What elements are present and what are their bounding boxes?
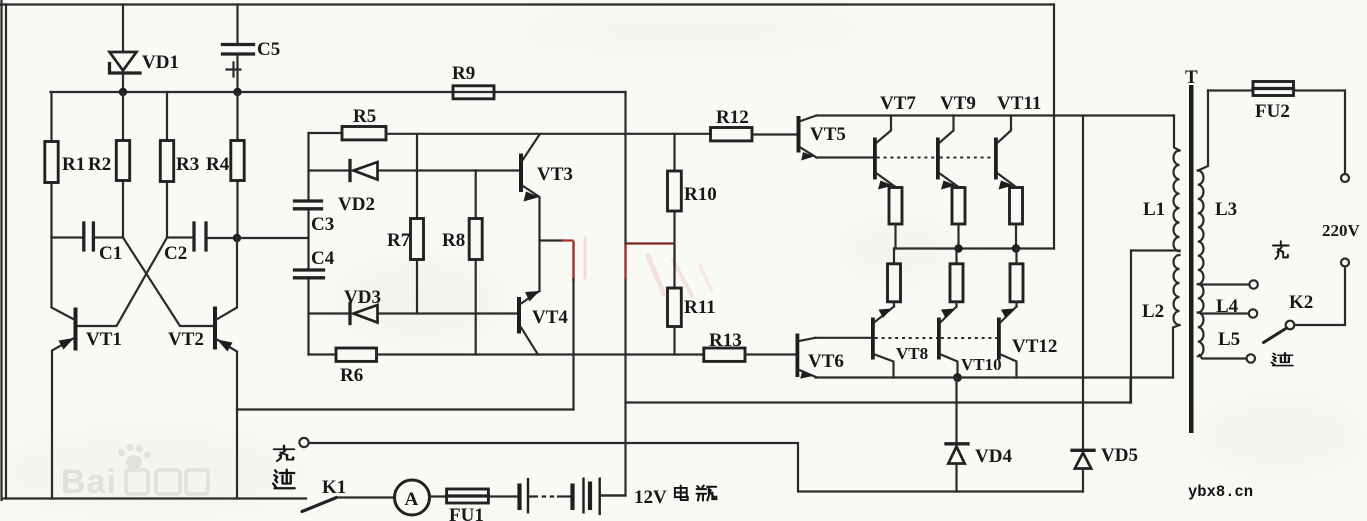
svg-text:FU2: FU2 <box>1255 101 1290 122</box>
transistor VT1 <box>52 238 78 499</box>
node junction VD1/bus <box>119 88 127 96</box>
wire return column x=573.5 <box>572 279 574 410</box>
wire L4/L5 tap <box>1201 312 1249 314</box>
label charge (right) <box>1273 241 1289 259</box>
svg-text:K2: K2 <box>1289 292 1313 313</box>
svg-text:R13: R13 <box>709 330 742 351</box>
capacitor C4 <box>295 270 324 278</box>
svg-text:L3: L3 <box>1215 199 1237 220</box>
wire base rail VT6 to VT8 <box>816 337 872 339</box>
svg-text:VD4: VD4 <box>975 446 1012 467</box>
wire line-B battery positive to centre tap <box>626 401 1131 403</box>
wire red segment vertical x=674.5 <box>673 245 675 267</box>
wire middle block left column <box>307 133 309 355</box>
resistor R6 <box>309 348 704 361</box>
transistor VT5 <box>797 116 817 161</box>
capacitor C2 <box>167 223 237 250</box>
winding L2 <box>1173 255 1180 378</box>
svg-text:VD5: VD5 <box>1101 445 1138 466</box>
winding L1 <box>1174 116 1180 252</box>
svg-text:VT11: VT11 <box>997 93 1041 114</box>
svg-text:R6: R6 <box>340 365 363 386</box>
capacitor C3 <box>295 201 322 209</box>
wire top supply rail <box>0 3 1054 5</box>
svg-text:L1: L1 <box>1143 199 1165 220</box>
winding L4 <box>1198 284 1204 312</box>
wire red tap to R10/R11 node <box>626 242 675 244</box>
wire battery positive column x=625.5 <box>601 92 626 496</box>
svg-text:C3: C3 <box>311 214 334 235</box>
svg-text:T: T <box>1185 67 1198 88</box>
resistor R13 <box>704 348 796 361</box>
wire L3 top to FU2 <box>1208 89 1253 91</box>
terminal L3/L4 tap <box>1249 280 1257 288</box>
wire L5 bottom <box>1200 355 1247 359</box>
resistor VT8 emitter <box>888 249 901 307</box>
svg-text:R3: R3 <box>176 154 199 175</box>
resistor R5 <box>309 127 711 140</box>
svg-text:VT5: VT5 <box>810 124 846 145</box>
svg-text:220V: 220V <box>1322 221 1361 240</box>
diode VD3 <box>309 304 518 324</box>
node junction rail/VT11 column <box>1012 244 1020 252</box>
svg-text:VD3: VD3 <box>344 287 381 308</box>
resistor VT12 emitter <box>1010 249 1023 307</box>
resistor VT10 emitter <box>950 249 963 307</box>
wire collector rail y=377.5 to L2 <box>816 376 1174 378</box>
wire collector rail y=115.5 <box>817 114 1175 116</box>
svg-text:VT1: VT1 <box>86 329 122 350</box>
wire bracket rail to line-B x=1130.5 <box>1129 378 1131 403</box>
label charge (left) <box>274 446 294 462</box>
winding L3 <box>1198 91 1208 285</box>
wire 220V lower to K2 <box>1295 267 1346 326</box>
wire bottom-left ground rail <box>2 497 306 499</box>
wire positive bus y=92 <box>51 91 626 93</box>
svg-text:R7: R7 <box>387 230 411 251</box>
svg-text:VT8: VT8 <box>896 344 928 363</box>
terminal 220V lower <box>1341 259 1349 267</box>
terminal L4/L5 tap <box>1249 309 1257 317</box>
svg-text:C1: C1 <box>99 243 122 264</box>
diode VD1 <box>110 5 141 93</box>
wire dashed base link VT7-VT9 <box>877 157 936 159</box>
svg-text:R5: R5 <box>353 106 376 127</box>
resistor R3 <box>160 92 173 238</box>
terminal L5 bottom (inverter) <box>1247 354 1255 362</box>
fuse FU2 <box>1253 82 1294 96</box>
wire primary centre tap <box>1131 249 1180 251</box>
transistor VT7 <box>873 116 896 190</box>
wire FU2 to 220V terminal <box>1294 91 1346 175</box>
resistor R10 <box>668 134 682 288</box>
svg-text:VD1: VD1 <box>142 52 179 73</box>
wire red segment vertical x=625.5 <box>624 245 626 279</box>
meter A <box>395 480 430 515</box>
diode VD5 <box>1072 118 1094 492</box>
transistor VT4 <box>517 291 540 355</box>
node junction VT10 collector/rail <box>953 373 962 382</box>
svg-text:K1: K1 <box>322 477 346 498</box>
svg-text:R9: R9 <box>452 63 475 84</box>
winding L5 <box>1198 313 1204 357</box>
switch K2 pivot <box>1286 321 1295 330</box>
svg-text:VT7: VT7 <box>880 93 916 114</box>
svg-text:R8: R8 <box>442 230 465 251</box>
svg-text:L5: L5 <box>1218 329 1240 350</box>
label battery char dian <box>675 485 688 500</box>
svg-text:VD2: VD2 <box>338 194 375 215</box>
svg-text:ybx8.cn: ybx8.cn <box>1188 483 1253 501</box>
transistor VT12 <box>997 307 1017 378</box>
label battery char ping <box>697 486 717 501</box>
svg-text:VT6: VT6 <box>808 351 844 372</box>
svg-text:VT9: VT9 <box>940 93 976 114</box>
svg-text:VT10: VT10 <box>961 355 1002 374</box>
wire base rail VT5 to VT7 <box>817 156 874 158</box>
wire FU1 to battery <box>488 495 517 497</box>
switch K2 blade <box>1264 328 1287 343</box>
battery 12V cells <box>520 478 626 516</box>
wire dashed base link VT9-VT11 <box>940 157 994 159</box>
wire dashed base link VT8-VT10 <box>875 337 937 339</box>
wire emitter node to down-column <box>540 239 563 241</box>
wire dashed base link VT10-VT12 <box>941 337 997 339</box>
svg-text:Bai: Bai <box>61 463 117 501</box>
svg-text:R11: R11 <box>684 297 716 318</box>
wire ammeter to FU1 <box>430 495 447 497</box>
wire cross-couple C1 node to VT2 base <box>123 238 213 327</box>
watermark baidu baike <box>61 444 208 501</box>
wire red segment horizontal <box>562 239 574 241</box>
resistor R12 <box>711 128 797 141</box>
node junction rail/VT9 column <box>954 244 962 252</box>
transistor VT10 <box>937 307 958 378</box>
wire K1 to ammeter <box>337 496 395 498</box>
wire left image border <box>0 0 2 500</box>
svg-text:C5: C5 <box>257 39 280 60</box>
wire centre-tap return y=409 <box>237 408 574 410</box>
terminal charge contact <box>299 438 308 447</box>
resistor R4 <box>231 92 244 238</box>
resistor VT9 emitter <box>952 188 965 249</box>
capacitor C5 <box>223 5 254 93</box>
svg-text:VT12: VT12 <box>1012 336 1057 357</box>
resistor VT11 emitter <box>1010 188 1023 249</box>
transistor VT3 <box>519 135 540 292</box>
transistor VT2 <box>213 238 237 499</box>
wire top supply drop x=1053.5 <box>1053 5 1055 249</box>
svg-text:FU1: FU1 <box>449 505 484 521</box>
node junction C5/bus <box>233 88 241 96</box>
svg-text:A: A <box>405 489 419 510</box>
svg-text:R1: R1 <box>62 154 85 175</box>
transistor VT11 <box>994 116 1016 190</box>
node junction C2/R4 <box>233 234 241 242</box>
capacitor C1 <box>52 223 124 250</box>
fuse FU1 <box>447 489 489 503</box>
svg-text:R2: R2 <box>88 154 111 175</box>
wire left vertical conductor <box>5 5 7 499</box>
transistor VT8 <box>871 307 894 378</box>
transistor VT9 <box>936 116 959 190</box>
svg-text:C4: C4 <box>311 248 335 269</box>
svg-text:12V: 12V <box>634 487 667 508</box>
wire C2 node to C3/C4 junction <box>237 237 309 239</box>
resistor R1 <box>45 92 58 238</box>
resistor R2 <box>116 92 129 238</box>
resistor R8 <box>469 171 482 355</box>
resistor R11 <box>668 288 682 355</box>
transistor VT6 <box>796 334 816 379</box>
wire charge line <box>309 443 1083 492</box>
svg-text:R12: R12 <box>716 107 749 128</box>
svg-text:R10: R10 <box>684 184 717 205</box>
diode VD2 <box>309 161 520 181</box>
wire centre-tap column x=1131 <box>1130 251 1132 403</box>
svg-text:VT4: VT4 <box>532 307 568 328</box>
svg-text:L2: L2 <box>1142 301 1164 322</box>
watermark pink smudges <box>585 238 712 296</box>
resistor R9 <box>453 86 494 99</box>
svg-text:C2: C2 <box>164 243 187 264</box>
label invert (left) <box>273 470 295 489</box>
resistor VT7 emitter <box>889 188 902 249</box>
transformer T core <box>1189 85 1194 433</box>
diode VD4 <box>946 378 968 492</box>
switch K1 blade <box>302 498 337 512</box>
label invert (right) <box>1272 353 1293 366</box>
svg-text:R4: R4 <box>206 154 230 175</box>
svg-text:VT3: VT3 <box>537 164 573 185</box>
wire L3/L4 tap <box>1201 283 1249 285</box>
resistor R7 <box>411 134 424 314</box>
terminal 220V upper <box>1341 174 1349 182</box>
wire emitter-resistor rail y=248.5 <box>894 247 1054 249</box>
wire red segment vertical x=573.5 <box>572 241 574 282</box>
wire cross-couple C2 node to VT1 base <box>78 238 168 327</box>
svg-text:VT2: VT2 <box>168 329 204 350</box>
